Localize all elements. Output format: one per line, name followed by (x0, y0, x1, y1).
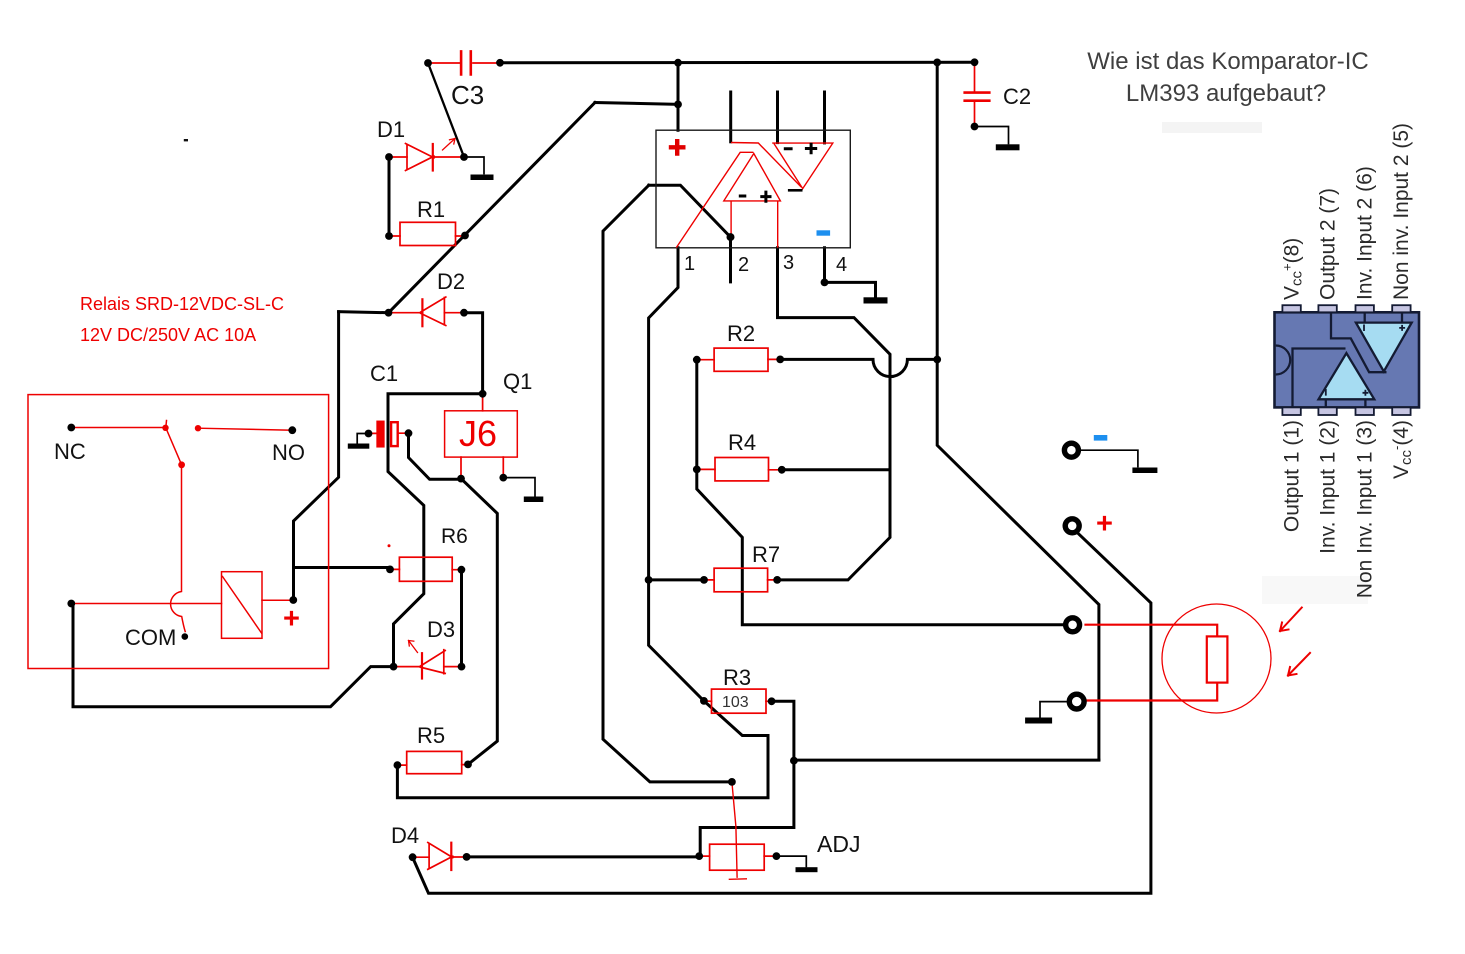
junction wiper node (728, 778, 736, 786)
resistor R5 (397, 751, 468, 773)
U1B minus plus (784, 143, 817, 155)
IC minus marking blue (817, 230, 831, 235)
svg-text:R2: R2 (727, 321, 755, 346)
terminal plus (1065, 519, 1079, 533)
op-amp U1B triangle (772, 143, 833, 189)
diode D1 (LED) (389, 139, 464, 171)
wire IC pin stub 2 top (776, 92, 779, 143)
junction R7 left rail (645, 576, 653, 584)
svg-text:103: 103 (722, 694, 749, 711)
wire minus terminal ground stub (1081, 450, 1138, 466)
junction D2 cathode node (460, 309, 468, 317)
junction R3 left (700, 697, 708, 705)
LDR light arrow 1 (1280, 608, 1302, 632)
IC plus marking (669, 139, 686, 156)
svg-text:Output 1 (1): Output 1 (1) (1281, 420, 1304, 532)
wire relay plus branch vertical (294, 312, 339, 600)
junction R2 left (693, 356, 701, 364)
op-amp U1A triangle (724, 154, 781, 201)
svg-text:LM393 aufgebaut?: LM393 aufgebaut? (1126, 80, 1326, 107)
junction IC plus node (674, 101, 682, 109)
junction R7 left (700, 576, 708, 584)
terminal minus (1064, 443, 1078, 457)
svg-text:R6: R6 (441, 525, 468, 548)
diode D2 (389, 297, 465, 326)
junction D2 anode node (385, 309, 393, 317)
svg-text:R4: R4 (728, 430, 756, 455)
junction C3 left (424, 59, 432, 67)
junction Q1 gate node (479, 390, 487, 398)
junction R3 right (768, 697, 776, 705)
junction poti right (773, 852, 781, 860)
comparator A triangle (1319, 353, 1375, 399)
svg-text:Relais SRD-12VDC-SL-C: Relais SRD-12VDC-SL-C (80, 294, 284, 314)
wire D4 left to bottom rail and plus terminal (413, 533, 1151, 893)
wire R6 left horizontal (294, 566, 390, 569)
junction R2 output node (933, 356, 941, 364)
junction Vcc rail B (933, 59, 941, 67)
wire D1 anode vertical to R1 left (388, 157, 391, 236)
svg-text:R5: R5 (417, 723, 445, 748)
junction R1 left (385, 232, 393, 240)
junction R4 left (693, 466, 701, 474)
svg-text:2: 2 (738, 254, 749, 276)
junction R1 right (461, 232, 469, 240)
svg-text:Non inv. Input 2 (5): Non inv. Input 2 (5) (1390, 123, 1413, 300)
wire D3 right to R6 right (460, 570, 463, 667)
resistor R7 (704, 568, 777, 592)
terminal LDR top (1066, 618, 1080, 632)
svg-text:Q1: Q1 (503, 369, 532, 394)
svg-text:Inv. Input 1 (2): Inv. Input 1 (2) (1317, 420, 1340, 554)
svg-text:C2: C2 (1003, 84, 1031, 109)
pins bottom (1282, 407, 1300, 415)
wire horizontal into vcc node (595, 103, 678, 105)
diode D4 (413, 843, 467, 871)
svg-text:Inv. Input 2 (6): Inv. Input 2 (6) (1354, 166, 1377, 300)
wire Q1 emitter diagonal down to R5 right (461, 479, 497, 765)
resistor R3 (704, 689, 772, 713)
wire D2 right to Q1 top node (464, 313, 483, 394)
potentiometer ADJ (699, 782, 776, 879)
junction relay coil plus (289, 596, 297, 604)
junction Q1 collector pin (499, 474, 507, 482)
connection terminals (1064, 443, 1084, 709)
wire vcc vertical into IC box (677, 63, 680, 131)
wire D4 right to poti left (467, 855, 700, 858)
svg-text:NO: NO (272, 440, 305, 465)
resistor R6 (390, 557, 461, 581)
op-amp U1A output lead from pin1 (676, 152, 753, 247)
wire long diagonal from IC plus node through R1 right to D2 left (389, 103, 596, 313)
junction Vcc rail A (674, 59, 682, 67)
comparator B triangle (1356, 323, 1412, 372)
minus terminal blue mark (1094, 435, 1108, 441)
junction COM terminal (182, 633, 189, 640)
svg-text:Vcc+(8): Vcc+(8) (1280, 238, 1306, 300)
LM393 pinout image (1162, 122, 1419, 604)
relay pole wire with hop and COM tail (171, 465, 186, 632)
ground at ADJ (796, 867, 818, 872)
junction D4 cathode (463, 853, 471, 861)
ground at minus terminal (1132, 468, 1157, 474)
junction Q1 base node (457, 475, 465, 483)
wire C1 right to Q1 base pin (409, 433, 462, 479)
junction R5 right (464, 761, 472, 769)
wire Q1 top node to D3 left (388, 394, 483, 667)
wire IC pin2 branch to poti wiper node (649, 185, 731, 282)
junction R6 right (458, 566, 466, 574)
op-amp U1B output tick (788, 189, 803, 192)
ground at IC pin4 (864, 297, 888, 303)
LDR light arrow 2 (1288, 653, 1310, 676)
ground symbols (348, 144, 1158, 872)
junction R5 left (394, 761, 402, 769)
junction IC pin4 (821, 279, 829, 287)
relay switch lever (166, 421, 182, 465)
relay enclosure box (28, 395, 329, 669)
junction R6 left (386, 566, 394, 574)
junction R4 right (778, 466, 786, 474)
comparator A polarity marks (1326, 389, 1369, 396)
svg-text:J6: J6 (459, 413, 497, 454)
wire C1 ground stub (357, 434, 368, 444)
svg-text:4: 4 (836, 254, 847, 276)
diode D3 (LED) (394, 641, 462, 679)
svg-text:+: + (283, 603, 300, 635)
junction D3 cathode (458, 663, 466, 671)
wire IC pin4 to ground (825, 248, 876, 297)
wire R4 right horizontal (782, 468, 890, 471)
terminal LDR bottom (1069, 694, 1084, 709)
IC comparator U1 hand-drawn box (656, 130, 850, 248)
svg-text:D4: D4 (391, 823, 419, 848)
junction IC pin2 node (727, 233, 735, 241)
wire D1 ground stub (464, 157, 484, 174)
svg-text:3: 3 (783, 252, 794, 274)
wire top rail down through R2 node to lower right corner (937, 63, 1099, 760)
op-amp U1A input leads (731, 201, 778, 248)
resistor R2 (697, 348, 780, 371)
junction D1 cathode (460, 153, 468, 161)
wire R2 right with hop over vertical (780, 359, 937, 376)
svg-text:D3: D3 (427, 617, 455, 642)
junction R2 right (776, 356, 784, 364)
wire R2 left down to R4 left and terminal 3 (697, 360, 1064, 625)
wire C2 ground stub (975, 127, 1009, 144)
ground at C1 (348, 444, 370, 449)
relay contact NC line (71, 427, 165, 429)
wire C3 left diagonal to D1 cathode (428, 63, 464, 157)
faint image edge band (1162, 122, 1262, 133)
relay coil (222, 572, 293, 639)
photoresistor LDR (1086, 604, 1272, 713)
svg-text:C3: C3 (451, 80, 484, 110)
package notch (1276, 346, 1291, 375)
junction D1 anode (385, 153, 393, 161)
comparator B polarity marks (1364, 325, 1405, 332)
wire D2 left to relay branch horizontal (339, 312, 389, 313)
svg-text:R1: R1 (417, 197, 445, 222)
wire Q1 collector ground stub (503, 478, 535, 496)
junction C1 right (405, 429, 413, 437)
svg-text:R7: R7 (752, 542, 780, 567)
resistor R1 (389, 222, 465, 245)
ground at Q1 (524, 497, 544, 503)
junction relay COM left (67, 600, 75, 608)
svg-text:COM: COM (125, 625, 176, 650)
wire R3 right to adj junction (772, 701, 794, 760)
capacitor C1 (polarized) (372, 421, 405, 446)
internal wiring pin7 to comparator B output (1331, 312, 1387, 372)
ground at D1 (471, 175, 494, 181)
wire ADJ ground stub (776, 856, 806, 866)
wire top supply rail (500, 61, 975, 65)
svg-text:1: 1 (684, 253, 695, 275)
stray dash mark (184, 139, 188, 141)
wire R5 left loop to R3 left node (397, 248, 768, 798)
svg-text:C1: C1 (370, 361, 398, 386)
svg-text:Output 2 (7): Output 2 (7) (1317, 188, 1340, 300)
heading german text (1087, 48, 1368, 107)
svg-text:NC: NC (54, 439, 86, 464)
svg-text:12V DC/250V AC 10A: 12V DC/250V AC 10A (80, 325, 256, 345)
wire IC pin1 stub top (729, 92, 732, 142)
wire IC pin stub 3 top (823, 92, 826, 143)
relay contact NO line (198, 428, 292, 430)
junction D3 anode (390, 663, 398, 671)
junction C3 right (496, 59, 504, 67)
svg-text:D2: D2 (437, 269, 465, 294)
svg-text:R3: R3 (723, 665, 751, 690)
input stubs comparator A (1326, 312, 1402, 407)
svg-text:ADJ: ADJ (817, 831, 860, 857)
ground at C2 (996, 144, 1020, 150)
junction C1 left (365, 430, 373, 438)
wire IC pin3 to R7 right (777, 248, 890, 580)
relay red contact dots (162, 425, 390, 548)
pin labels top (1280, 123, 1416, 598)
junction NO terminal (288, 426, 296, 434)
svg-text:Non Inv. Input 1 (3): Non Inv. Input 1 (3) (1354, 420, 1377, 598)
transistor Q1 box J6 (445, 394, 518, 479)
svg-text:+: + (1096, 508, 1113, 540)
resistor R4 (697, 458, 782, 481)
wire adj junction down to poti left (700, 761, 794, 857)
capacitor C3 (428, 51, 500, 74)
capacitor C2 (965, 63, 990, 127)
svg-text:Wie ist das Komparator-IC: Wie ist das Komparator-IC (1087, 48, 1368, 75)
wire R7 left horizontal (649, 578, 704, 581)
internal wiring pin1 to comparator A output (1293, 349, 1346, 408)
junction R7 right (773, 576, 781, 584)
junction poti left (695, 852, 703, 860)
pins top (1282, 305, 1410, 415)
wire D3 left to relay COM left (73, 604, 394, 707)
relay COM horizontal wire (71, 603, 221, 605)
junction C2 top (971, 58, 979, 66)
wire terminal4 ground stub (1040, 702, 1067, 717)
U1A minus plus (739, 191, 772, 203)
junction D4 anode (409, 853, 417, 861)
junction NC terminal (67, 424, 75, 432)
IC package body (1275, 312, 1420, 407)
ground at terminal 4 (1025, 718, 1052, 724)
op-amp U1B lead from pin7 (731, 143, 801, 188)
svg-text:D1: D1 (377, 117, 405, 142)
junction ADJ net (790, 757, 798, 765)
svg-text:Vcc-(4): Vcc-(4) (1389, 420, 1415, 479)
junction C2 bottom (971, 123, 979, 131)
wire adj junction horizontal (794, 759, 1099, 762)
